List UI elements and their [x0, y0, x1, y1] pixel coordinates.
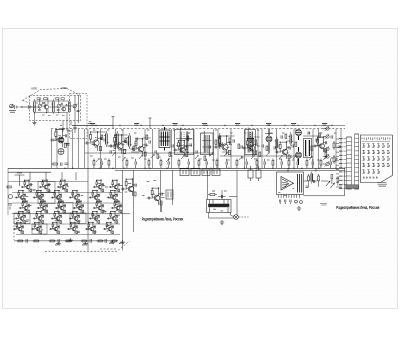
capacitor C4a	[77, 111, 80, 112]
lower block row5 components	[14, 239, 118, 243]
resistor R33	[331, 175, 342, 188]
audio amplifier DA1	[277, 172, 304, 195]
transistor VT33	[51, 211, 62, 223]
ground G5	[55, 242, 60, 246]
transistor VT4	[109, 134, 126, 153]
wire DA1 out	[288, 168, 345, 196]
wire speaker	[209, 213, 234, 219]
relay cluster K1	[202, 169, 220, 175]
tuner wiring	[30, 98, 75, 120]
variable capacitor C2	[38, 103, 43, 109]
IF transformer T3	[201, 131, 214, 157]
lower block dashed boundary	[14, 218, 130, 251]
jack XS2	[323, 126, 329, 131]
inductor L3	[69, 99, 71, 112]
wire kpe stubs	[113, 117, 150, 129]
transistor VT31	[147, 187, 163, 205]
label Sm	[134, 124, 139, 126]
transistor VT30	[111, 200, 122, 212]
label osc	[88, 122, 92, 124]
ground G8	[119, 240, 124, 244]
label UVCh	[90, 124, 95, 126]
svg-text:КПЕ: КПЕ	[32, 87, 38, 91]
ground output	[220, 220, 224, 224]
switch contacts	[362, 144, 389, 173]
transistor VT21	[51, 190, 62, 202]
DA1 pins	[279, 195, 300, 198]
inductor L2	[53, 99, 55, 114]
transistor VT6	[173, 140, 188, 157]
output transformer T6	[207, 200, 232, 213]
jack XS3	[323, 134, 329, 139]
label Vyh	[322, 124, 327, 126]
filter cluster ZQ1	[166, 169, 200, 199]
wire main bus bottom	[8, 168, 345, 172]
transistor VT2 mixer	[50, 129, 66, 147]
transistor VT8	[242, 138, 257, 155]
ground G9	[67, 238, 72, 242]
transistor VT13	[313, 137, 327, 153]
coil L8	[218, 133, 223, 149]
volume arrow	[326, 181, 335, 188]
coil L7	[127, 133, 132, 149]
variable capacitor C4	[73, 104, 78, 108]
transistor VT29	[93, 200, 104, 212]
connector strip XS7	[355, 134, 359, 189]
transistor VT18	[109, 179, 120, 191]
capacitor C31	[306, 186, 309, 187]
antenna T symbol	[15, 173, 25, 186]
transistor VT32	[33, 211, 44, 223]
capacitor C1	[29, 105, 33, 109]
transistor VT12 (dark)	[296, 147, 302, 165]
transistor VT17	[93, 179, 104, 191]
transistor VT16	[57, 179, 68, 191]
transistor VT24	[107, 190, 118, 202]
ground G7	[109, 240, 114, 244]
band mid capacitors	[104, 131, 332, 153]
variable capacitor C3	[57, 104, 62, 108]
DA1 specks	[278, 187, 294, 196]
resistor R31	[318, 174, 320, 183]
label Det	[235, 124, 240, 126]
wire to output stage	[208, 170, 238, 214]
IF strip boundary (dashed)	[51, 128, 345, 130]
label antenna input	[9, 111, 16, 113]
transistor VT22	[69, 190, 80, 202]
resistor R21	[333, 155, 335, 164]
label VD	[291, 124, 296, 126]
wire mid-band rail	[85, 136, 321, 156]
label UPCh2	[202, 124, 207, 126]
resistor R30	[308, 174, 310, 183]
tuner shield box (dashed)	[30, 96, 81, 121]
transistor VT28	[73, 200, 84, 212]
tuning gang outline (dashed)	[23, 89, 81, 104]
DA1 pin components	[280, 200, 303, 205]
IF transformer T2	[175, 128, 194, 157]
DA1 note	[320, 204, 327, 206]
svg-text:КПЕ: КПЕ	[62, 86, 68, 90]
oscillator coil L4	[58, 149, 64, 155]
transistor VT27	[55, 200, 66, 212]
jack XS6	[323, 161, 329, 166]
coil L10	[289, 132, 294, 146]
wire speaker dashed	[239, 216, 249, 218]
ladder pin labels	[339, 139, 347, 189]
trimmer RP1	[248, 166, 261, 181]
band switch block SA1	[361, 135, 393, 183]
resistor R20	[333, 141, 335, 150]
oscillator shield box (dashed)	[70, 94, 88, 139]
transistor VT42	[103, 222, 113, 234]
label UZCh	[266, 124, 271, 126]
connector ladder XS1	[347, 137, 352, 189]
transistor VT3	[85, 131, 102, 150]
band bottom irregular marks	[96, 152, 337, 162]
transistor VT25	[19, 200, 30, 212]
wire band top rail	[72, 124, 345, 126]
wire left feeder	[8, 168, 122, 234]
mixer bottom parts	[52, 163, 69, 166]
transistor VT1b	[62, 107, 66, 111]
transistor VT7	[214, 135, 231, 154]
band small resistors	[101, 133, 327, 160]
loudspeaker BA1	[234, 215, 239, 220]
inductor L1	[34, 99, 36, 114]
switch block header text	[362, 138, 390, 142]
tuner node dots	[34, 100, 65, 113]
label T6	[212, 190, 227, 192]
transistor VT31	[15, 211, 26, 223]
transistor VT9 (dark)	[265, 129, 273, 152]
transistor VT30	[121, 178, 137, 196]
tuner extra clutter	[36, 98, 67, 116]
band jumper wires	[98, 132, 291, 152]
winding L11	[311, 172, 313, 184]
capacitor C30	[314, 180, 315, 183]
transistor VT26	[37, 200, 48, 212]
left column parts	[7, 186, 13, 210]
transistor VT37	[13, 222, 23, 234]
antenna circle	[10, 104, 14, 108]
IF transformer T4	[245, 128, 256, 157]
capacitor C6	[73, 124, 76, 133]
speaker specks	[213, 207, 229, 211]
label UPCh1	[173, 124, 178, 126]
stage outline boxes	[14, 182, 86, 235]
transistor VT14	[21, 179, 32, 191]
IF transformer T1 (dark)	[159, 127, 170, 151]
transistor VT36	[107, 211, 118, 223]
capacitor C26	[218, 195, 226, 198]
jack XS5	[323, 154, 329, 159]
coil L9	[275, 137, 280, 151]
switch contacts row 5	[364, 176, 378, 178]
svg-text:Радиоприёмник Лена, Россия: Радиоприёмник Лена, Россия	[336, 205, 379, 210]
coil L6	[115, 131, 120, 147]
cable termination bar	[346, 185, 360, 189]
lower dashed 2	[100, 248, 116, 250]
transistor VT11 (dark)	[296, 129, 302, 140]
transistor VT1	[44, 101, 48, 112]
coil L5	[104, 131, 109, 147]
transistor VT34	[69, 211, 80, 223]
strip node dots	[60, 125, 336, 169]
transistor VT15	[39, 179, 50, 191]
output transformer T5	[304, 139, 312, 158]
transistor VT20	[33, 190, 44, 202]
wire oscillator leads	[63, 96, 113, 132]
ground tuner	[32, 121, 36, 125]
switch note text	[378, 182, 388, 186]
transistor VT38	[31, 222, 41, 234]
mid specks	[142, 181, 156, 196]
transistor VT39	[49, 222, 59, 234]
capacitor C7	[66, 144, 70, 146]
svg-text:Радиоприёмник Лена, Россия: Радиоприёмник Лена, Россия	[142, 216, 184, 221]
wire strip verticals	[52, 129, 342, 168]
jack XS4	[323, 146, 329, 151]
strip bottom components	[93, 159, 331, 169]
ground osc	[61, 127, 65, 131]
transistor VT35	[89, 211, 100, 223]
resistor R2	[42, 98, 47, 104]
transistor VT19	[15, 190, 26, 202]
transistor VT5	[130, 138, 146, 156]
transistor VT10	[275, 141, 291, 159]
wire mid verticals	[88, 168, 173, 250]
antenna WA1	[9, 105, 29, 109]
transistor VT40	[67, 222, 77, 234]
wire strip-to-ladder links	[336, 139, 339, 187]
transistor VT23	[89, 190, 100, 202]
transistor VT41	[85, 222, 95, 234]
resistor R26	[208, 194, 217, 196]
capacitor C20	[338, 146, 341, 147]
strip speck labels	[90, 130, 336, 160]
ground DA1	[297, 206, 301, 210]
ground G6	[82, 242, 87, 246]
